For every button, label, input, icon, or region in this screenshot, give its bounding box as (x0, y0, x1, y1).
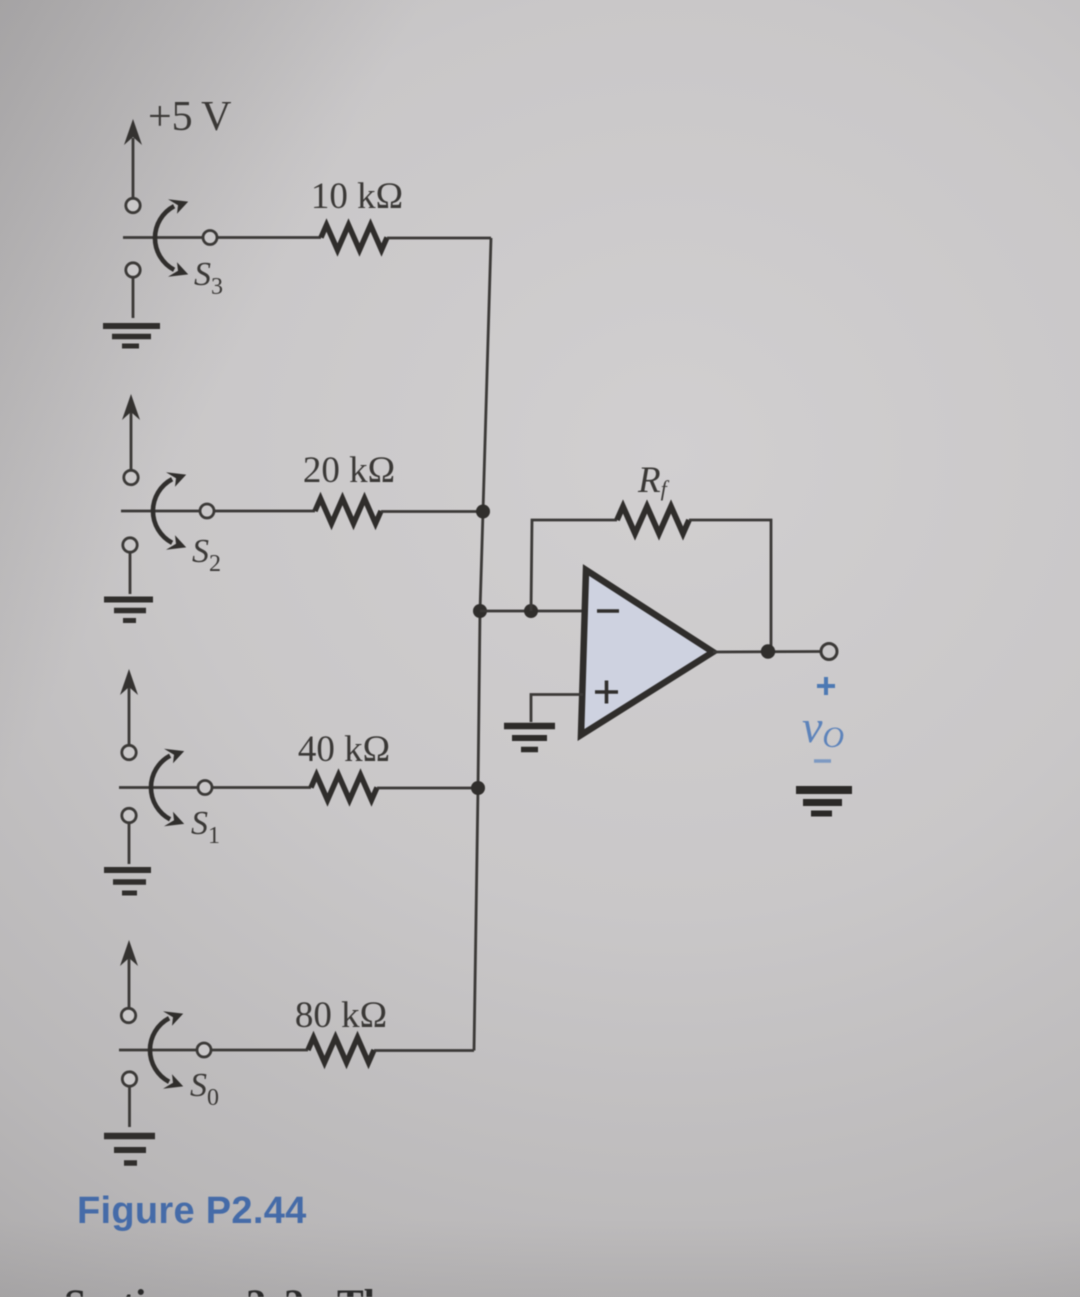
node: S0 pole terminal (197, 1043, 211, 1057)
wire: Rf to output riser (689, 520, 771, 652)
wire: S2 bottom throw to ground (129, 553, 132, 595)
wire: S3 bottom throw to ground (132, 278, 135, 319)
svg-text:Section: Section (64, 1281, 188, 1297)
ground (S0) (104, 1136, 155, 1163)
node: S0 top throw terminal (121, 1008, 135, 1022)
node: S0 bottom throw terminal (122, 1072, 136, 1086)
wire: bus to op-amp inverting input (480, 610, 586, 613)
wire: S1 pole line (119, 786, 311, 789)
power +5V supply arrow (S3) (124, 119, 142, 198)
svg-text:vO: vO (802, 701, 844, 754)
ground (output reference) (796, 790, 852, 814)
junction: bus at inverting input wire (473, 604, 487, 618)
ground (op-amp non-inverting input) (504, 726, 555, 750)
svg-text:80 kΩ: 80 kΩ (295, 995, 387, 1036)
svg-text:20 kΩ: 20 kΩ (303, 450, 395, 491)
wire: non-inverting input to ground (531, 695, 583, 723)
wire: feedback left riser (531, 520, 617, 611)
power supply arrow (S1) (120, 669, 138, 745)
svg-text:40 kΩ: 40 kΩ (298, 729, 390, 770)
pin: inverting input minus sign (597, 609, 619, 613)
node: output terminal (821, 644, 837, 660)
resistor Rf (617, 507, 689, 534)
junction: output / feedback (761, 644, 775, 658)
power supply arrow (S2) (122, 394, 140, 470)
wire: 20k resistor to bus (381, 510, 484, 513)
node: S1 top throw terminal (122, 745, 136, 759)
resistor 40 kOhm (311, 775, 377, 800)
switch S0 arrow (150, 1011, 183, 1088)
wire: S3 pole line (123, 236, 321, 239)
svg-text:Figure P2.44: Figure P2.44 (77, 1190, 307, 1232)
wire: summing bus vertical (474, 238, 491, 1051)
junction: bus at 20k (476, 505, 490, 519)
ground (S1) (104, 870, 151, 893)
partial section heading (cut off at page bottom) (64, 1281, 404, 1297)
wire: op-amp output (713, 650, 820, 653)
node: S3 pole terminal (203, 231, 217, 245)
ground (S3) (103, 326, 160, 346)
switch S2 arrow (153, 472, 186, 549)
svg-text:10 kΩ: 10 kΩ (311, 176, 403, 217)
wire: 80k resistor to bus corner (374, 1049, 474, 1052)
resistor 20 kOhm (315, 499, 381, 524)
svg-text:Rf: Rf (637, 460, 670, 501)
junction: inverting input / feedback tap (524, 604, 538, 618)
wire: S0 pole line (119, 1049, 308, 1052)
ground (S2) (104, 600, 153, 621)
junction: bus at 40k (471, 781, 485, 795)
wire: S1 bottom throw to ground (128, 823, 131, 864)
node: S3 top throw terminal (126, 198, 140, 212)
resistor 80 kOhm (308, 1038, 374, 1063)
wire: S0 bottom throw to ground (128, 1087, 131, 1128)
node: S1 bottom throw terminal (122, 808, 136, 822)
node: S1 pole terminal (198, 781, 212, 795)
pin: non-inverting input plus sign (595, 681, 618, 704)
power supply arrow (S0) (120, 940, 138, 1008)
svg-text:S3: S3 (194, 256, 223, 300)
wire: S2 pole line (121, 510, 315, 513)
svg-text:2.2: 2.2 (246, 1281, 308, 1297)
wire: 40k resistor to bus (377, 787, 480, 790)
op-amp U1 (581, 570, 713, 735)
switch S1 arrow (151, 749, 184, 826)
switch S3 arrow (155, 199, 188, 276)
node: S3 bottom throw terminal (126, 263, 140, 277)
svg-text:S1: S1 (191, 805, 220, 849)
node: S2 top throw terminal (124, 470, 138, 484)
svg-text:S2: S2 (192, 533, 221, 577)
label + (output polarity) (817, 677, 835, 695)
resistor 10 kOhm (321, 225, 387, 250)
svg-text:+5 V: +5 V (148, 94, 231, 140)
node: S2 bottom throw terminal (123, 538, 137, 552)
label - (output polarity) (814, 759, 831, 763)
wire: 10k resistor to bus (387, 237, 491, 240)
node: S2 pole terminal (200, 504, 214, 518)
svg-text:S0: S0 (190, 1067, 219, 1111)
svg-text:The: The (337, 1281, 404, 1297)
